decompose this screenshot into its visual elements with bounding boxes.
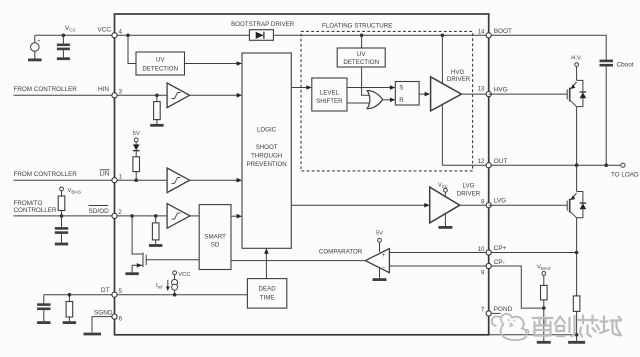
ground under R shunt bbox=[568, 341, 585, 344]
ground at SGND bbox=[84, 333, 102, 336]
svg-text:LVG: LVG bbox=[463, 183, 475, 190]
resistor R sd internal bbox=[155, 216, 157, 223]
wire DT external bbox=[44, 294, 115, 296]
svg-text:SHIFTER: SHIFTER bbox=[316, 98, 343, 105]
ground under R sd bbox=[149, 244, 162, 247]
svg-text:Cboot: Cboot bbox=[617, 62, 634, 69]
wire OR to R input bbox=[383, 99, 392, 101]
logic block LOGIC SHOOT THROUGH PREVENTION bbox=[242, 53, 291, 248]
node OUT cboot junction bbox=[604, 163, 608, 167]
wire schmitt sd to smart sd bbox=[190, 215, 199, 217]
svg-text:8: 8 bbox=[481, 200, 485, 206]
wire LVG driver ground bbox=[444, 214, 446, 226]
svg-text:DRIVER: DRIVER bbox=[447, 76, 471, 83]
voltage source V1 bbox=[34, 35, 36, 43]
wire comparator plus to pin 10 bbox=[389, 252, 488, 254]
svg-text:DETECTION: DETECTION bbox=[142, 65, 178, 72]
terminal 5V comparator bbox=[378, 238, 382, 242]
node SD junction resistor bbox=[154, 214, 158, 218]
wire schmitt hin to logic bbox=[190, 94, 238, 96]
wire LVG driver to pin 8 bbox=[460, 204, 489, 206]
svg-text:12: 12 bbox=[478, 159, 485, 165]
diode D lin clamp bbox=[133, 144, 140, 150]
node shunt bottom junction bbox=[575, 333, 579, 337]
wire dead time to logic bbox=[265, 252, 267, 278]
svg-text:3: 3 bbox=[119, 90, 123, 96]
node SD ext junction bbox=[60, 214, 64, 218]
wire smart sd to logic bbox=[231, 215, 238, 217]
svg-text:4: 4 bbox=[119, 30, 123, 36]
svg-text:VCC: VCC bbox=[65, 25, 77, 33]
resistor R bias right bbox=[543, 275, 545, 285]
latch S R bbox=[395, 82, 419, 106]
watermark chick logo bbox=[501, 314, 527, 340]
svg-text:VBIAS: VBIAS bbox=[68, 188, 82, 194]
wire BOOT to Cboot bbox=[491, 35, 606, 59]
wire OUT internal bbox=[442, 164, 488, 166]
svg-text:HVG: HVG bbox=[494, 87, 508, 94]
ground under R bias right bbox=[537, 341, 551, 344]
resistor R sd pullup bbox=[61, 191, 63, 196]
wire SD internal bbox=[117, 215, 167, 217]
wire comparator minus to pin 9 bbox=[389, 265, 488, 267]
svg-text:DRIVER: DRIVER bbox=[457, 191, 481, 198]
node HIN junction bbox=[155, 94, 159, 98]
wire Q1 gate from smart sd bbox=[146, 259, 199, 261]
svg-text:CP+: CP+ bbox=[494, 245, 507, 252]
svg-text:SD: SD bbox=[211, 241, 220, 248]
svg-text:TIME: TIME bbox=[260, 295, 275, 302]
op-amp LVG driver bbox=[291, 204, 425, 206]
node DT internal junction bbox=[173, 293, 177, 297]
terminal VCC for Iref bbox=[173, 271, 177, 275]
wire SGND to ground bbox=[92, 317, 112, 333]
svg-text:LIN: LIN bbox=[100, 171, 110, 178]
svg-text:CP-: CP- bbox=[494, 259, 505, 266]
UV detection block (main) bbox=[136, 52, 185, 75]
svg-text:UV: UV bbox=[357, 51, 366, 58]
resistor R hin pulldown bbox=[156, 95, 158, 101]
ground under C1 bbox=[57, 57, 70, 60]
node SD junction mosfet bbox=[130, 214, 134, 218]
svg-text:PGND: PGND bbox=[494, 306, 513, 313]
svg-text:PREVENTION: PREVENTION bbox=[246, 161, 286, 168]
watermark char 3 (xin) bbox=[578, 316, 599, 337]
pin 14 BOOT bbox=[486, 33, 491, 38]
wire floating UV to OR gate bbox=[362, 67, 371, 95]
svg-text:OUT: OUT bbox=[494, 158, 508, 165]
wire SD external bbox=[14, 215, 115, 217]
wire LIN internal bbox=[117, 179, 167, 181]
ground under V1 bbox=[28, 59, 42, 62]
wire UV detection feed bbox=[128, 35, 136, 63]
transistor Q1 open drain mosfet bbox=[132, 216, 143, 254]
node CP+ emitter junction bbox=[575, 251, 579, 255]
OR gate bbox=[367, 91, 382, 109]
wire OUT to load bbox=[491, 164, 621, 166]
svg-text:10: 10 bbox=[478, 247, 485, 253]
svg-text:R: R bbox=[399, 97, 404, 104]
wire DT internal bbox=[117, 294, 247, 296]
svg-text:TO LOAD: TO LOAD bbox=[611, 171, 639, 178]
wire UV detection to logic bbox=[185, 63, 239, 65]
wire rail to floating UV bbox=[361, 35, 363, 48]
terminal 5V LIN bbox=[134, 138, 138, 142]
wire PGND net bottom bbox=[489, 334, 577, 336]
current source Iref bbox=[174, 275, 176, 280]
svg-text:H.V.: H.V. bbox=[571, 56, 582, 62]
svg-text:LOGIC: LOGIC bbox=[257, 127, 277, 134]
svg-text:SD/OD: SD/OD bbox=[89, 208, 110, 215]
ground under R hin bbox=[150, 124, 163, 127]
svg-text:6: 6 bbox=[119, 317, 123, 323]
watermark char 4 (cheng) bbox=[600, 317, 621, 336]
IC boundary box bbox=[115, 14, 489, 335]
wire comparator output to smart sd bbox=[231, 260, 365, 262]
svg-text:LVG: LVG bbox=[494, 198, 506, 205]
svg-text:FLOATING STRUCTURE: FLOATING STRUCTURE bbox=[322, 23, 392, 30]
svg-text:CONTROLLER: CONTROLLER bbox=[14, 207, 57, 214]
transistor Q high side IGBT bbox=[489, 93, 568, 95]
wire CP+ external bbox=[491, 252, 576, 254]
svg-text:1: 1 bbox=[119, 175, 123, 181]
wire Q low emitter to CP+ bbox=[576, 218, 578, 253]
wire level shifter to OR gate bbox=[347, 102, 371, 104]
watermark char 2 (chuang) bbox=[555, 316, 575, 336]
resistor R lin clamp bbox=[133, 157, 140, 172]
svg-text:VBIAS: VBIAS bbox=[537, 265, 551, 271]
svg-text:2: 2 bbox=[118, 210, 122, 216]
ground under C sd bbox=[55, 243, 68, 246]
ground under R dt bbox=[63, 321, 76, 324]
svg-text:DEAD: DEAD bbox=[258, 286, 276, 293]
dead time block bbox=[247, 279, 286, 309]
wire Q high emitter to OUT bbox=[576, 107, 578, 166]
pin 13 HVG bbox=[486, 92, 491, 97]
svg-text:DT: DT bbox=[101, 287, 110, 294]
wire HVG driver to pin 13 bbox=[461, 93, 488, 95]
comparator U comp bbox=[365, 249, 389, 273]
pin 7 PGND bbox=[486, 311, 491, 316]
wire HIN external bbox=[14, 94, 115, 96]
svg-text:VCC: VCC bbox=[98, 26, 112, 33]
transistor Q low side IGBT bbox=[489, 204, 568, 206]
node OUT emitter junction bbox=[575, 163, 579, 167]
svg-text:13: 13 bbox=[478, 86, 485, 92]
node rail junction HVG driver supply bbox=[441, 34, 445, 38]
svg-text:+: + bbox=[38, 39, 41, 45]
op-amp HVG driver bbox=[431, 77, 462, 111]
wire PGND stub bbox=[491, 312, 500, 314]
svg-text:DETECTION: DETECTION bbox=[343, 59, 379, 66]
wire VCC to BOOT internal rail bbox=[117, 34, 489, 36]
svg-text:LEVEL: LEVEL bbox=[320, 90, 340, 97]
wire schmitt lin to logic bbox=[190, 179, 238, 181]
ground under comparator bbox=[373, 278, 387, 281]
svg-text:14: 14 bbox=[478, 30, 485, 36]
svg-text:FROM CONTROLLER: FROM CONTROLLER bbox=[14, 86, 78, 93]
bootstrap driver diode box bbox=[249, 30, 273, 41]
watermark char 1 (rong) bbox=[533, 318, 553, 336]
svg-text:+: + bbox=[381, 252, 385, 259]
pin 9 CP- bbox=[486, 263, 491, 268]
wire LIN external bbox=[14, 179, 115, 181]
wire level shifter to S input bbox=[347, 87, 391, 89]
wire logic to level shifter bbox=[291, 87, 308, 89]
resistor R shunt bbox=[576, 253, 578, 296]
wire V1 to ground bbox=[34, 51, 36, 58]
wire comparator ground bbox=[379, 268, 381, 279]
smart sd block bbox=[199, 205, 231, 270]
node rail junction floating UV bbox=[360, 34, 364, 38]
level shifter block bbox=[312, 78, 347, 111]
svg-text:VCC: VCC bbox=[178, 272, 190, 278]
svg-text:9: 9 bbox=[481, 270, 485, 276]
terminal Vbias SD pullup bbox=[60, 187, 64, 191]
wire CP- to divider bbox=[491, 266, 544, 308]
wire HVG supply down to OUT bbox=[441, 35, 443, 165]
ground under LVG driver bbox=[438, 226, 452, 229]
svg-text:5V: 5V bbox=[376, 230, 383, 236]
node DT junction bbox=[68, 293, 72, 297]
wire latch to HVG driver bbox=[419, 93, 426, 95]
diode D boot bbox=[256, 32, 264, 39]
node CP- divider junction bbox=[542, 306, 546, 310]
capacitor C1 (Vcc bypass) bbox=[62, 35, 64, 43]
svg-text:COMPARATOR: COMPARATOR bbox=[319, 248, 363, 255]
svg-text:SHOOT: SHOOT bbox=[256, 144, 278, 151]
svg-text:Iref: Iref bbox=[156, 283, 163, 289]
pin 12 OUT bbox=[486, 163, 491, 168]
svg-text:FROM CONTROLLER: FROM CONTROLLER bbox=[14, 171, 78, 178]
svg-text:S: S bbox=[399, 84, 403, 91]
wire HIN internal bbox=[117, 94, 167, 96]
wire Vcc rail external bbox=[35, 34, 115, 36]
schmitt trigger U sd bbox=[167, 204, 190, 229]
node LIN junction bbox=[134, 178, 138, 182]
ground under C dt bbox=[37, 321, 50, 324]
resistor R dt bbox=[68, 295, 70, 302]
terminal TO LOAD bbox=[621, 163, 625, 167]
UV detection block (floating) bbox=[337, 48, 385, 67]
node Vcc junction bbox=[62, 34, 66, 38]
svg-text:THROUGH: THROUGH bbox=[251, 153, 282, 160]
ground under Q1 bbox=[125, 272, 138, 275]
svg-text:UV: UV bbox=[156, 57, 165, 64]
pin 10 CP+ bbox=[486, 250, 491, 255]
capacitor C sd bbox=[61, 216, 63, 227]
schmitt trigger U hin bbox=[167, 83, 190, 108]
floating structure dashed boundary bbox=[301, 31, 473, 171]
wire Q low collector to OUT bbox=[576, 165, 578, 191]
pin 8 LVG bbox=[486, 203, 491, 208]
svg-text:7: 7 bbox=[481, 308, 485, 314]
svg-text:BOOT: BOOT bbox=[494, 28, 512, 35]
svg-text:5V: 5V bbox=[133, 131, 140, 137]
capacitor Cboot bbox=[600, 60, 614, 63]
svg-text:SGND: SGND bbox=[94, 309, 113, 316]
capacitor C dt bbox=[43, 295, 45, 304]
svg-text:5: 5 bbox=[119, 289, 123, 295]
svg-text:HIN: HIN bbox=[98, 86, 109, 93]
node rail junction at UV detection drop bbox=[126, 34, 130, 38]
svg-text:BOOTSTRAP DRIVER: BOOTSTRAP DRIVER bbox=[231, 21, 295, 28]
svg-text:SMART: SMART bbox=[204, 234, 226, 241]
schmitt trigger U lin bbox=[167, 168, 190, 193]
